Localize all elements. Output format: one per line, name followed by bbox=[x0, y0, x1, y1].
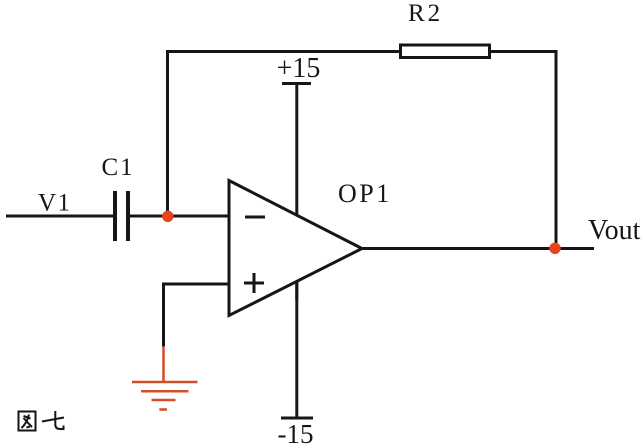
capacitor C1 bbox=[115, 191, 128, 241]
-15 supply bar bbox=[281, 417, 313, 420]
svg-text:OP1: OP1 bbox=[338, 179, 392, 208]
wire: non-inverting input horizontal bbox=[164, 283, 230, 286]
svg-text:Vout: Vout bbox=[588, 215, 641, 246]
wire: negative supply rail bbox=[295, 250, 298, 418]
junction dot: inverting input node bbox=[162, 211, 173, 222]
label: figure caption 图七 bbox=[19, 411, 65, 431]
junction dot: output node bbox=[549, 243, 560, 254]
wire: feedback left vertical and top horizontal bbox=[168, 52, 400, 217]
non-inverting input symbol bbox=[244, 273, 264, 293]
svg-text:V1: V1 bbox=[38, 190, 72, 217]
wire: V1 input to C1 bbox=[6, 215, 113, 218]
ground lead (red) bbox=[162, 346, 165, 382]
svg-text:C1: C1 bbox=[102, 154, 135, 181]
inverting input symbol bbox=[245, 216, 265, 219]
wire: output bbox=[362, 247, 594, 250]
wire: positive supply rail bbox=[295, 84, 298, 300]
op-amp OP1 bbox=[229, 181, 362, 316]
svg-text:R2: R2 bbox=[408, 0, 443, 27]
wire: R2 to right corner and down to output bbox=[491, 52, 556, 249]
wire: non-inverting input down toward ground bbox=[162, 283, 165, 348]
ground bbox=[132, 382, 198, 410]
resistor R2 bbox=[401, 45, 490, 58]
+15 supply bar bbox=[282, 82, 311, 85]
wire: C1 to inverting input bbox=[130, 215, 229, 218]
svg-text:+15: +15 bbox=[277, 53, 321, 84]
svg-text:-15: -15 bbox=[278, 419, 314, 448]
